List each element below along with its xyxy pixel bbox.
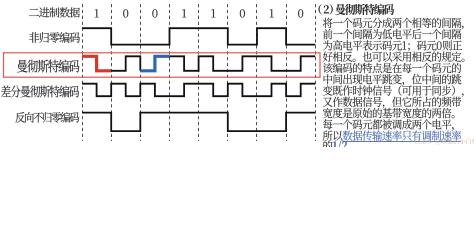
paragraph line: 所以数据传输速率只有调制速率 (323, 131, 343, 141)
Manchester waveform bit2 segment (black) (111, 56, 140, 71)
paragraph line: 变既作时钟信号（可用于同步）， (323, 85, 464, 97)
red highlight box around Manchester row (4, 53, 321, 77)
paragraph line: 又作数据信号，但它所占的频带 (323, 97, 461, 109)
CSDN watermark (415, 138, 474, 144)
paragraph line: 为高电平表示码元1；码元0则正 (323, 40, 462, 51)
row label 曼彻斯特编码 (17, 60, 79, 73)
Manchester waveform bit1 segment (red highlight) (82, 56, 111, 71)
row label 二进制数据 (29, 7, 80, 17)
paragraph line: 宽度是原始的基带宽度的两倍。 (323, 108, 455, 118)
paragraph line: 每一个码元都被调成两个电平， (323, 119, 454, 131)
NRZ waveform (非归零编码) (82, 28, 315, 44)
link underline (342, 141, 461, 143)
row label 差分曼彻斯特编码 (1, 85, 79, 97)
paragraph line: 的1/2。 (323, 140, 332, 150)
Manchester waveform bits4-8 (black) (170, 56, 316, 71)
paragraph line: 前一个间隔为低电平后一个间隔 (323, 29, 461, 39)
paragraph line: 好相反。也可以采用相反的规定。 (323, 52, 465, 62)
bit-boundary dashed gridlines (83, 4, 316, 141)
row label 反向不归零编码 (15, 112, 79, 123)
heading （2）曼彻斯特编码 (319, 4, 333, 14)
NRZI waveform (反向不归零编码) (82, 113, 315, 132)
row label 非归零编码 (29, 32, 80, 43)
paragraph line: 将一个码元分成两个相等的间隔， (323, 18, 464, 30)
paragraph line: 中间出现电平跳变，位中间的跳 (324, 74, 462, 86)
Differential Manchester waveform (差分曼彻斯特编码) (82, 84, 315, 97)
Manchester waveform bit3 segment (blue highlight) (140, 56, 169, 71)
paragraph line: 该编码的特点是在每一个码元的 (323, 63, 461, 73)
binary data digits 1 0 0 1 1 0 1 0 (95, 9, 303, 17)
